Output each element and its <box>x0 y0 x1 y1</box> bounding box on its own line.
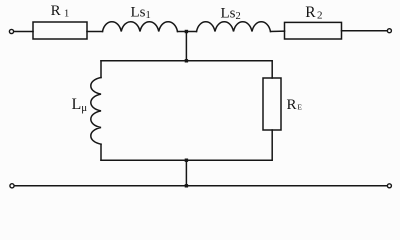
wire right branch upper <box>271 61 273 78</box>
inductor Lmu <box>91 78 101 145</box>
svg-text:RE: RE <box>287 97 303 113</box>
terminal bottom-right <box>387 184 391 188</box>
svg-text:Ls1: Ls1 <box>131 5 151 22</box>
terminal top-right <box>387 29 391 33</box>
svg-text:R2: R2 <box>305 4 322 22</box>
inductor Ls2 <box>197 22 271 32</box>
inductor Ls1 <box>103 22 178 32</box>
wire center vertical bottom <box>185 160 187 186</box>
wire R1 to Ls1 <box>87 31 103 33</box>
wire left branch upper <box>100 61 102 78</box>
node junction top rail <box>185 30 188 33</box>
terminal bottom-left <box>10 184 14 188</box>
wire R2 to top-right terminal <box>342 30 388 32</box>
node junction inner bottom <box>185 159 188 162</box>
wire top-left terminal to R1 <box>14 31 33 33</box>
resistor RE <box>263 78 281 130</box>
svg-text:R1: R1 <box>51 3 70 19</box>
resistor R1 <box>33 22 87 39</box>
wire center vertical top <box>185 32 187 61</box>
svg-text:Lμ: Lμ <box>72 96 88 114</box>
wire bottom rail <box>14 185 387 187</box>
node junction inner top <box>185 59 188 62</box>
node junction bottom rail <box>185 184 188 187</box>
terminal top-left <box>9 29 13 33</box>
wire inner top <box>101 60 272 62</box>
svg-text:Ls2: Ls2 <box>221 6 241 23</box>
wire Ls1 to Ls2 through node <box>178 31 197 33</box>
resistor R2 <box>285 22 342 39</box>
wire right branch lower <box>271 130 273 160</box>
wire inner bottom <box>101 159 272 161</box>
wire Ls2 to R2 <box>271 30 285 32</box>
wire left branch lower <box>100 144 102 160</box>
